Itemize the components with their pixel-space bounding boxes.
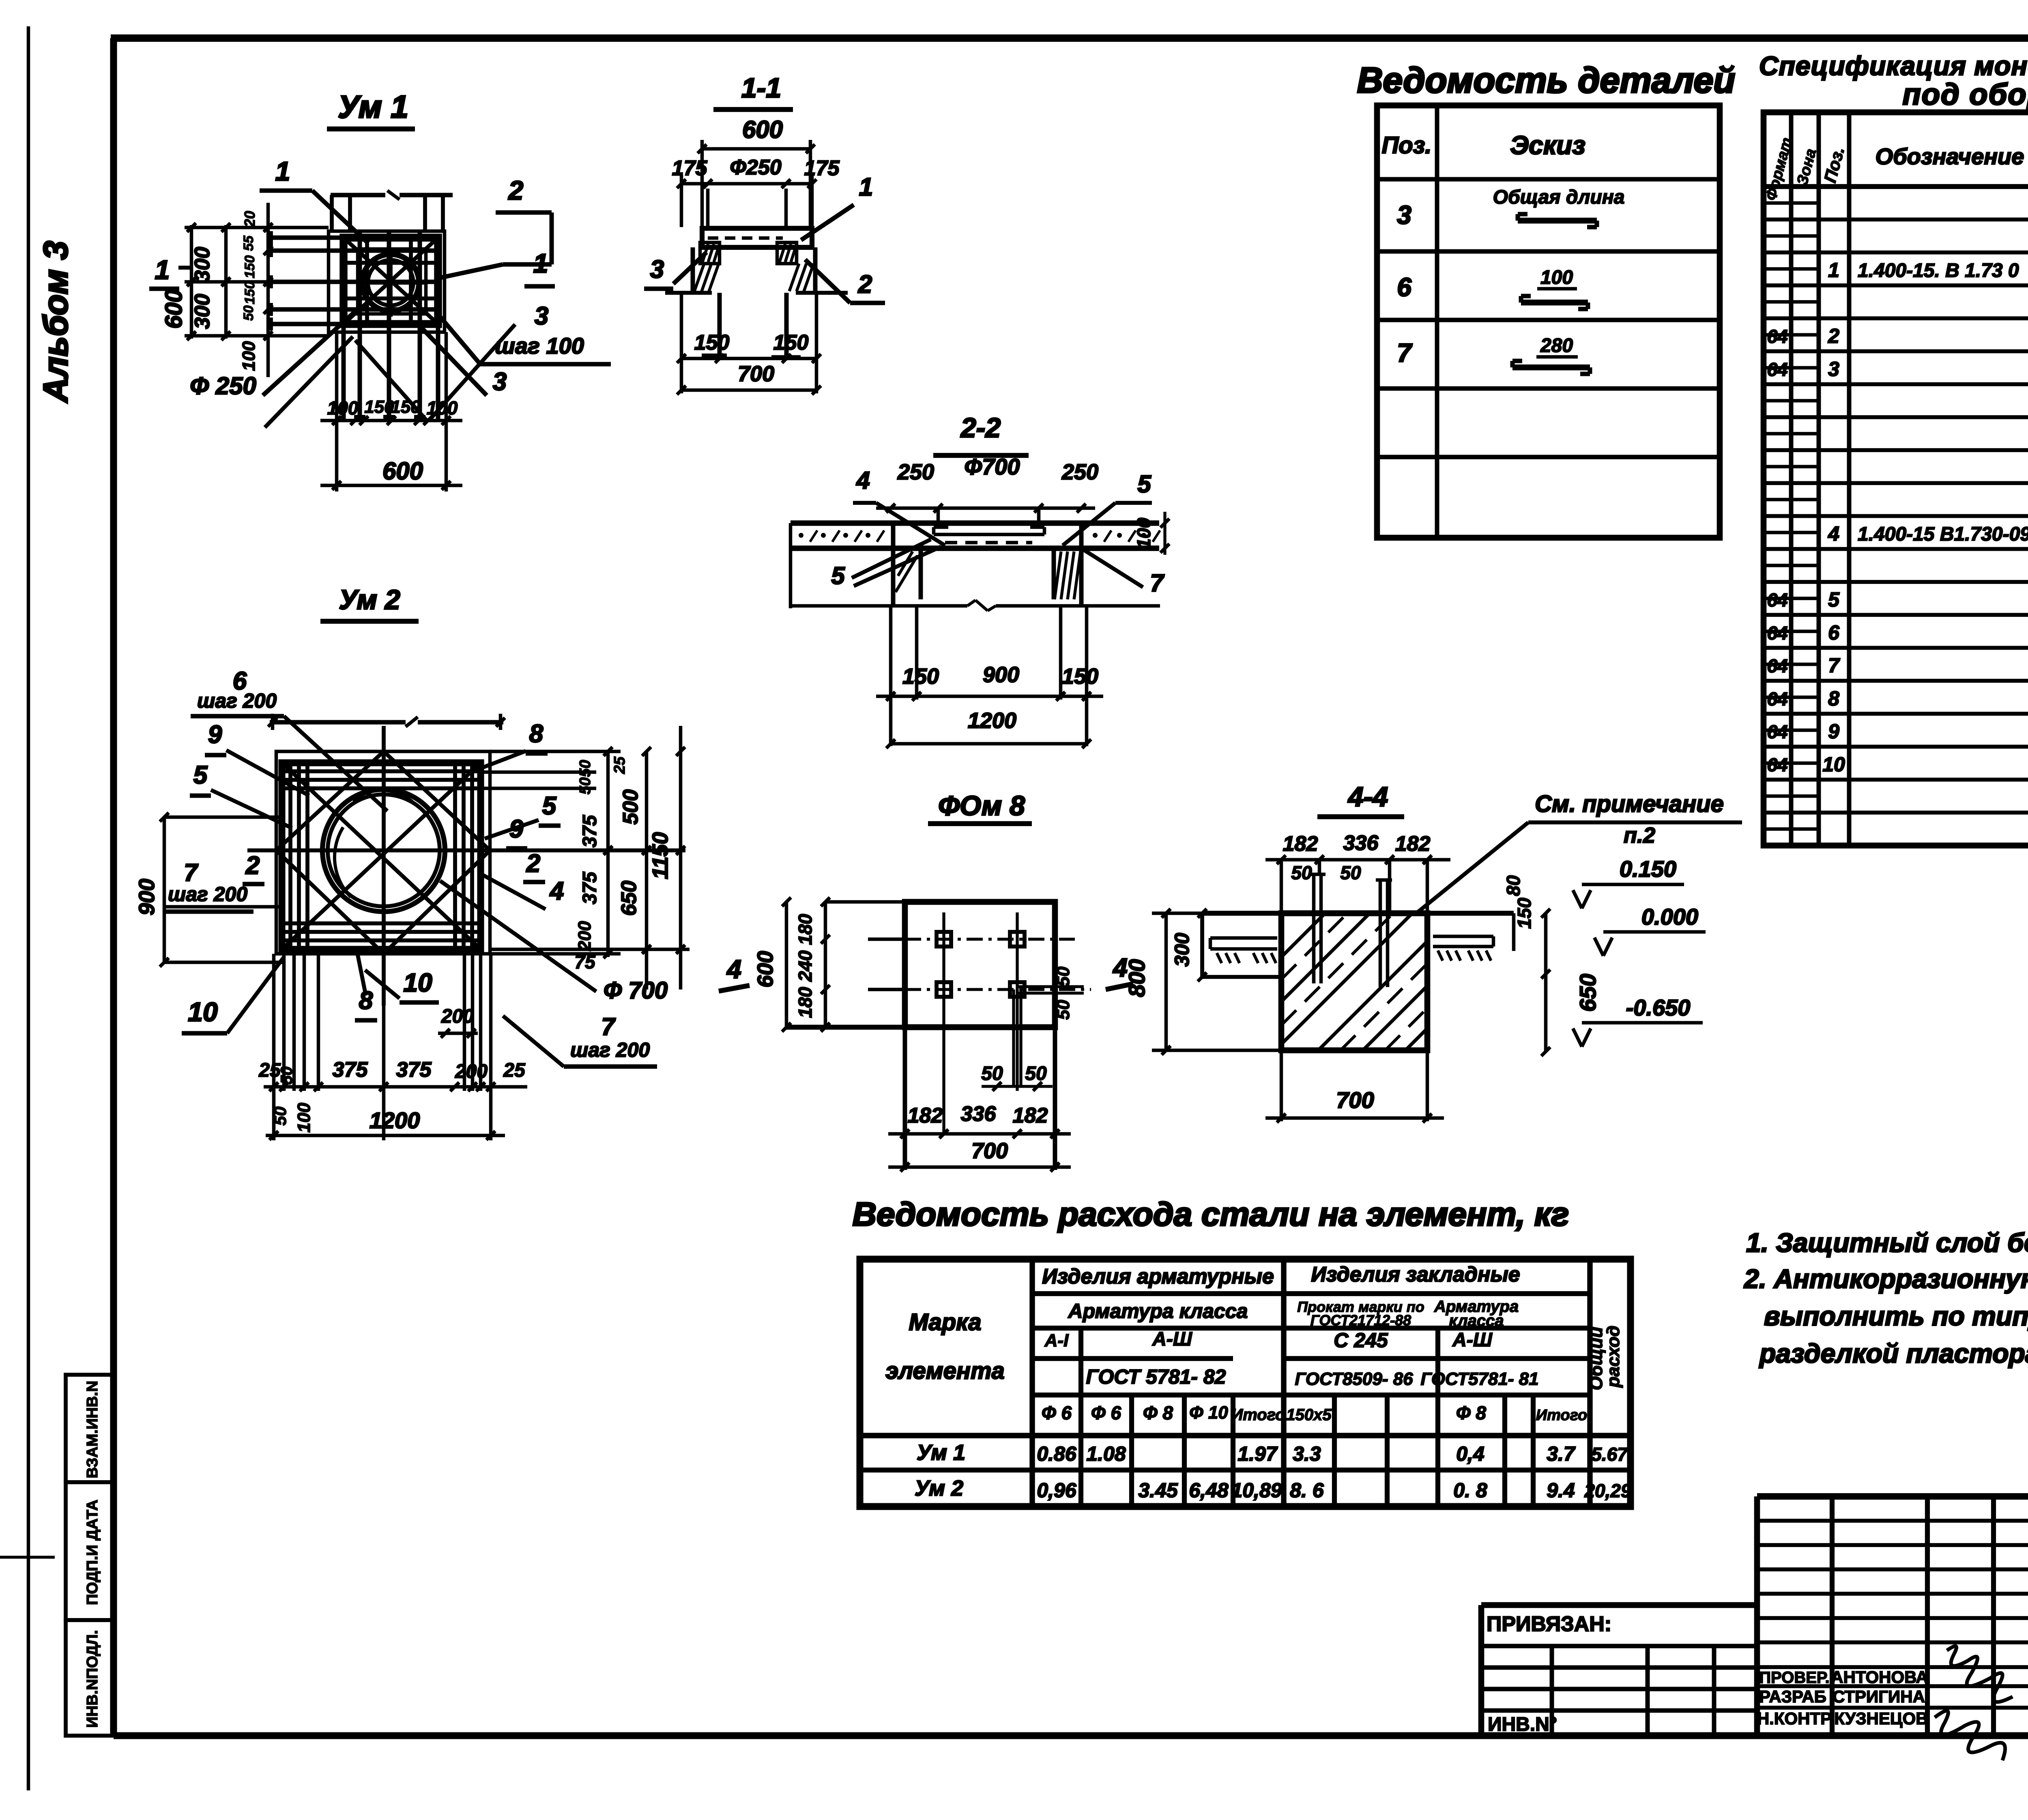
svg-text:250: 250 — [1061, 460, 1098, 484]
svg-text:Ф 6: Ф 6 — [1091, 1402, 1121, 1423]
svg-text:1.400-15. В 1.73 0: 1.400-15. В 1.73 0 — [1858, 260, 2019, 281]
svg-text:1150: 1150 — [648, 832, 672, 879]
svg-text:ПРИВЯЗАН:: ПРИВЯЗАН: — [1487, 1612, 1611, 1636]
svg-text:Итого: Итого — [1536, 1407, 1587, 1424]
svg-text:1: 1 — [859, 173, 873, 201]
svg-text:250: 250 — [897, 460, 934, 484]
svg-text:64: 64 — [1767, 590, 1787, 611]
svg-text:300: 300 — [1171, 933, 1193, 967]
svg-text:Ф 700: Ф 700 — [604, 977, 668, 1004]
svg-text:АНТОНОВА: АНТОНОВА — [1831, 1668, 1928, 1687]
svg-text:600: 600 — [753, 951, 778, 987]
svg-text:элемента: элемента — [885, 1358, 1005, 1384]
svg-text:50: 50 — [241, 305, 256, 321]
svg-text:50: 50 — [1025, 1063, 1047, 1084]
svg-text:1: 1 — [1828, 259, 1839, 281]
svg-text:8: 8 — [1828, 687, 1839, 710]
svg-text:ФОм 8: ФОм 8 — [938, 790, 1025, 821]
svg-text:5: 5 — [1828, 588, 1840, 611]
svg-text:5: 5 — [193, 761, 208, 789]
svg-text:3.7: 3.7 — [1547, 1442, 1576, 1465]
svg-text:900: 900 — [135, 879, 159, 915]
svg-text:150х5: 150х5 — [1286, 1406, 1332, 1424]
svg-text:50: 50 — [1053, 966, 1073, 986]
svg-text:шаг 200: шаг 200 — [168, 883, 247, 906]
svg-text:175: 175 — [672, 157, 708, 180]
svg-text:64: 64 — [1767, 622, 1787, 644]
svg-text:3: 3 — [1828, 358, 1839, 380]
svg-text:1: 1 — [533, 248, 548, 278]
svg-text:5: 5 — [1137, 470, 1151, 498]
svg-text:Арматура класса: Арматура класса — [1068, 1300, 1248, 1322]
svg-text:7: 7 — [1828, 654, 1840, 677]
svg-text:150: 150 — [364, 397, 394, 417]
svg-text:А-Ш: А-Ш — [1152, 1329, 1192, 1350]
svg-text:600: 600 — [742, 116, 783, 143]
svg-text:Ум 1: Ум 1 — [917, 1440, 965, 1465]
svg-text:4: 4 — [549, 877, 564, 905]
svg-text:150: 150 — [773, 331, 809, 354]
svg-text:25: 25 — [503, 1060, 526, 1081]
svg-text:3.3: 3.3 — [1293, 1442, 1321, 1465]
svg-text:9.4: 9.4 — [1547, 1479, 1575, 1502]
svg-text:5.67: 5.67 — [1591, 1444, 1628, 1465]
svg-text:1.97: 1.97 — [1237, 1442, 1278, 1465]
svg-text:3.45: 3.45 — [1138, 1479, 1178, 1502]
svg-text:4: 4 — [856, 467, 870, 494]
svg-text:180: 180 — [795, 914, 816, 945]
svg-text:10,89: 10,89 — [1231, 1479, 1282, 1502]
svg-text:182: 182 — [908, 1104, 943, 1127]
svg-text:1200: 1200 — [968, 708, 1016, 733]
svg-text:336: 336 — [1343, 831, 1379, 855]
svg-text:выполнить по типу пола „1" на: выполнить по типу пола „1" на листе АР-7… — [1764, 1301, 2028, 1331]
svg-text:Обозначение: Обозначение — [1875, 144, 2024, 169]
svg-text:Изделия закладные: Изделия закладные — [1311, 1263, 1520, 1286]
svg-text:4: 4 — [1828, 522, 1839, 545]
svg-text:3: 3 — [535, 302, 548, 330]
svg-text:2: 2 — [245, 852, 260, 880]
svg-text:4: 4 — [726, 955, 741, 984]
svg-text:ГОСТ 5781- 82: ГОСТ 5781- 82 — [1086, 1365, 1226, 1388]
svg-text:Изделия арматурные: Изделия арматурные — [1042, 1265, 1274, 1288]
svg-text:900: 900 — [983, 663, 1019, 687]
svg-text:А-Ш: А-Ш — [1452, 1329, 1493, 1351]
svg-text:200: 200 — [441, 1006, 474, 1027]
svg-text:375: 375 — [579, 815, 601, 848]
svg-text:20: 20 — [241, 211, 258, 227]
svg-text:10: 10 — [1822, 753, 1845, 776]
svg-text:Итого: Итого — [1231, 1406, 1285, 1424]
svg-text:150: 150 — [242, 281, 258, 305]
svg-text:336: 336 — [961, 1102, 997, 1126]
svg-text:1200: 1200 — [370, 1107, 420, 1133]
svg-text:50: 50 — [1291, 862, 1312, 883]
svg-text:2: 2 — [508, 175, 524, 205]
svg-text:0.000: 0.000 — [1641, 904, 1698, 929]
svg-text:7: 7 — [1397, 338, 1413, 367]
svg-text:Н.КОНТР: Н.КОНТР — [1757, 1709, 1832, 1728]
svg-text:шаг 100: шаг 100 — [495, 333, 584, 358]
svg-text:п.2: п.2 — [1624, 823, 1655, 848]
svg-text:20,29: 20,29 — [1584, 1480, 1631, 1501]
svg-text:650: 650 — [617, 881, 641, 916]
svg-text:700: 700 — [971, 1139, 1008, 1163]
svg-text:50: 50 — [278, 1067, 296, 1085]
svg-text:75: 75 — [574, 951, 596, 972]
svg-text:50: 50 — [1340, 862, 1361, 883]
svg-text:Ф 250: Ф 250 — [190, 372, 256, 399]
svg-text:650: 650 — [1575, 974, 1600, 1011]
svg-text:1: 1 — [155, 255, 170, 285]
svg-text:150: 150 — [1062, 664, 1098, 689]
svg-text:6,48: 6,48 — [1189, 1479, 1229, 1502]
svg-text:ВЗАМ.ИНВ.N: ВЗАМ.ИНВ.N — [84, 1381, 101, 1479]
svg-text:класса: класса — [1449, 1312, 1504, 1330]
svg-text:шаг 200: шаг 200 — [197, 689, 277, 712]
svg-text:800: 800 — [1124, 959, 1149, 997]
svg-text:700: 700 — [1336, 1087, 1374, 1113]
svg-text:180: 180 — [795, 987, 816, 1018]
svg-text:КУЗНЕЦОВ: КУЗНЕЦОВ — [1834, 1709, 1928, 1728]
svg-text:182: 182 — [1013, 1104, 1048, 1127]
svg-text:РАЗРАБ: РАЗРАБ — [1759, 1687, 1826, 1706]
svg-text:3: 3 — [650, 255, 664, 283]
svg-text:2-2: 2-2 — [960, 412, 1001, 443]
svg-text:Ум 1: Ум 1 — [338, 89, 408, 124]
svg-text:100: 100 — [1540, 267, 1573, 288]
svg-text:182: 182 — [1395, 832, 1431, 856]
svg-text:ПОДП.И ДАТА: ПОДП.И ДАТА — [84, 1500, 101, 1605]
svg-text:1-1: 1-1 — [741, 73, 781, 103]
svg-text:ПРОВЕР.: ПРОВЕР. — [1759, 1669, 1829, 1687]
svg-text:10: 10 — [188, 997, 218, 1027]
svg-text:9: 9 — [208, 721, 222, 749]
svg-text:700: 700 — [738, 362, 774, 386]
svg-text:А-I: А-I — [1044, 1331, 1069, 1350]
svg-text:280: 280 — [1540, 335, 1573, 356]
svg-text:182: 182 — [1283, 832, 1318, 856]
svg-text:375: 375 — [579, 871, 601, 904]
svg-text:100: 100 — [1133, 517, 1154, 549]
svg-text:100: 100 — [427, 397, 458, 419]
svg-text:100: 100 — [239, 341, 259, 371]
svg-text:шаг 200: шаг 200 — [570, 1039, 650, 1061]
svg-text:64: 64 — [1767, 688, 1787, 709]
svg-text:Альбом 3: Альбом 3 — [37, 241, 75, 403]
svg-text:Ф 10: Ф 10 — [1189, 1403, 1228, 1423]
svg-text:3: 3 — [493, 368, 507, 396]
svg-text:150: 150 — [1514, 897, 1535, 929]
svg-text:150: 150 — [902, 664, 939, 689]
svg-text:600: 600 — [161, 290, 187, 329]
svg-text:50: 50 — [577, 760, 594, 777]
svg-text:Ум 2: Ум 2 — [339, 584, 400, 615]
svg-text:разделкой пластораствором анке: разделкой пластораствором анкерных болто… — [1759, 1338, 2028, 1368]
svg-text:200: 200 — [455, 1061, 488, 1082]
svg-text:1.400-15 В1.730-09: 1.400-15 В1.730-09 — [1858, 524, 2028, 545]
svg-text:См. примечание: См. примечание — [1535, 791, 1724, 817]
svg-text:Ведомость расхода стали на эле: Ведомость расхода стали на элемент, кг — [853, 1196, 1569, 1233]
svg-text:375: 375 — [396, 1058, 432, 1082]
svg-text:0,4: 0,4 — [1456, 1442, 1484, 1465]
svg-text:Ф 8: Ф 8 — [1143, 1402, 1173, 1423]
svg-text:64: 64 — [1767, 655, 1787, 676]
svg-text:64: 64 — [1767, 326, 1787, 347]
svg-text:375: 375 — [333, 1058, 368, 1082]
svg-text:1: 1 — [275, 156, 290, 186]
svg-text:0,96: 0,96 — [1037, 1479, 1077, 1502]
svg-text:Ф 8: Ф 8 — [1456, 1402, 1487, 1423]
svg-text:150: 150 — [694, 331, 730, 354]
svg-text:7: 7 — [184, 859, 198, 886]
svg-text:25: 25 — [611, 756, 628, 774]
svg-text:0. 8: 0. 8 — [1453, 1479, 1487, 1502]
svg-text:64: 64 — [1767, 754, 1787, 775]
svg-text:Марка: Марка — [909, 1309, 981, 1335]
svg-text:Ведомость деталей: Ведомость деталей — [1357, 60, 1735, 100]
svg-text:150: 150 — [391, 397, 421, 417]
svg-text:ГОСТ5781- 81: ГОСТ5781- 81 — [1420, 1369, 1538, 1389]
svg-text:3: 3 — [1397, 200, 1411, 230]
svg-text:7: 7 — [1150, 569, 1164, 597]
svg-text:300: 300 — [191, 294, 214, 329]
svg-text:55: 55 — [241, 235, 256, 251]
svg-text:Общая длина: Общая длина — [1493, 187, 1625, 208]
svg-text:300: 300 — [191, 247, 214, 282]
svg-text:1. Защитный слой бетона - 20 м: 1. Защитный слой бетона - 20 мм. — [1746, 1228, 2028, 1258]
svg-text:ГОСТ21712-88: ГОСТ21712-88 — [1310, 1312, 1411, 1329]
svg-text:2. Антикорразионную защиту фун: 2. Антикорразионную защиту фундамента Фо… — [1743, 1264, 2028, 1294]
svg-text:Ум 2: Ум 2 — [915, 1476, 963, 1500]
svg-text:0.86: 0.86 — [1037, 1442, 1077, 1465]
svg-text:под оборудование.: под оборудование. — [1903, 77, 2028, 111]
svg-text:ГОСТ8509- 86: ГОСТ8509- 86 — [1295, 1369, 1413, 1389]
svg-text:100: 100 — [294, 1103, 314, 1133]
svg-text:6: 6 — [1828, 621, 1840, 644]
svg-text:Ф700: Ф700 — [964, 454, 1020, 479]
svg-text:СТРИГИНА: СТРИГИНА — [1833, 1687, 1925, 1706]
svg-text:175: 175 — [804, 157, 840, 180]
svg-text:50: 50 — [1053, 1000, 1073, 1019]
svg-text:240: 240 — [795, 950, 816, 982]
svg-text:150: 150 — [242, 255, 258, 279]
svg-text:С 245: С 245 — [1334, 1329, 1388, 1352]
svg-text:9: 9 — [509, 815, 524, 843]
svg-text:50: 50 — [577, 777, 594, 794]
svg-text:8. 6: 8. 6 — [1290, 1479, 1324, 1502]
svg-text:Ф 6: Ф 6 — [1042, 1402, 1072, 1423]
svg-text:Ф250: Ф250 — [730, 156, 781, 179]
svg-text:расход: расход — [1603, 1326, 1623, 1388]
svg-text:1.08: 1.08 — [1086, 1442, 1126, 1465]
svg-text:5: 5 — [831, 562, 845, 589]
svg-text:Поз.: Поз. — [1382, 132, 1432, 159]
svg-text:Эскиз: Эскиз — [1510, 131, 1585, 160]
svg-text:5: 5 — [542, 792, 557, 820]
svg-text:600: 600 — [382, 457, 423, 485]
svg-text:4-4: 4-4 — [1347, 781, 1388, 812]
svg-text:50: 50 — [271, 1107, 290, 1126]
svg-text:200: 200 — [575, 921, 595, 951]
svg-text:9: 9 — [1828, 720, 1839, 743]
svg-text:ИНВ.NПОДЛ.: ИНВ.NПОДЛ. — [84, 1630, 101, 1728]
svg-text:80: 80 — [1503, 875, 1524, 896]
svg-text:100: 100 — [327, 397, 359, 419]
svg-text:2: 2 — [858, 270, 872, 298]
svg-text:500: 500 — [619, 790, 642, 825]
svg-text:7: 7 — [601, 1013, 616, 1040]
svg-text:6: 6 — [1397, 273, 1411, 302]
svg-text:-0.650: -0.650 — [1626, 995, 1691, 1020]
svg-text:0.150: 0.150 — [1620, 856, 1676, 882]
svg-text:8: 8 — [529, 720, 544, 748]
svg-text:Спецификация монолитных участк: Спецификация монолитных участков и фунда… — [1759, 51, 2028, 81]
svg-text:ИНВ.N°: ИНВ.N° — [1488, 1714, 1557, 1735]
svg-text:2: 2 — [526, 850, 540, 878]
svg-text:10: 10 — [403, 968, 432, 997]
svg-text:64: 64 — [1767, 721, 1787, 743]
svg-text:2: 2 — [1828, 325, 1839, 348]
svg-text:64: 64 — [1767, 359, 1787, 380]
